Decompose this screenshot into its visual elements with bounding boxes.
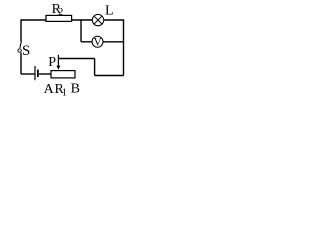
battery short plate <box>37 70 39 77</box>
switch S blade <box>20 41 22 48</box>
rheostat slider arrow <box>57 55 59 67</box>
svg-text:1: 1 <box>62 87 67 98</box>
svg-text:P: P <box>48 55 56 70</box>
wire top horizontal <box>21 19 124 21</box>
wire bottom right <box>95 75 124 77</box>
wire left vertical top <box>20 19 22 41</box>
wire bottom left to battery <box>21 73 35 75</box>
wire battery to rheostat <box>39 73 52 75</box>
lamp L circle <box>92 14 103 25</box>
lamp X cross <box>94 16 102 24</box>
battery long plate <box>34 66 36 80</box>
wire jog vertical <box>94 59 96 76</box>
wire voltmeter branch vertical <box>80 19 82 42</box>
wire voltmeter horizontal <box>81 41 124 43</box>
resistor R2 box <box>46 15 72 21</box>
svg-text:2: 2 <box>58 7 63 18</box>
svg-text:L: L <box>105 4 114 19</box>
svg-text:S: S <box>22 43 30 59</box>
switch S contact circle <box>18 49 21 52</box>
rheostat R1 box <box>51 71 75 78</box>
wire right vertical <box>123 19 125 75</box>
wire slider to jog <box>58 58 94 60</box>
svg-text:A: A <box>44 82 55 97</box>
svg-text:V: V <box>94 37 103 49</box>
voltmeter circle <box>92 36 103 47</box>
svg-text:B: B <box>71 81 80 96</box>
wire left vertical lower (switch to bottom corner) <box>20 53 22 74</box>
